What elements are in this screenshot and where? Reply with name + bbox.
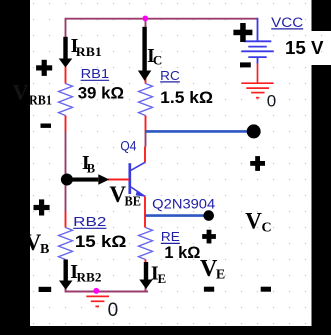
annotation minus (VB) [39,287,52,292]
resistor RE zigzag [139,228,153,260]
value 15 kOhm [75,232,127,251]
svg-text:V: V [245,209,262,234]
annotation VC [245,209,271,236]
net marker dot bottom (magenta) [93,288,99,294]
battery V1 plates [241,41,273,63]
label RC (refdes) [160,68,180,83]
svg-text:15 V: 15 V [285,37,324,58]
svg-text:RB1: RB1 [81,66,110,81]
transistor Q4 body [130,162,146,197]
svg-text:C: C [153,53,162,68]
svg-text:E: E [216,267,225,282]
value 39 kOhm [78,83,124,102]
net marker dot top (magenta) [142,16,148,22]
transistor Q4 collector pin [144,147,146,163]
svg-text:RB1: RB1 [76,44,102,59]
resistor RE pin bottom [145,260,147,277]
wire RE to bottom rail [145,276,147,292]
transistor Q4 base pin [108,179,129,181]
wire emitter output (blue) [145,214,205,217]
wire mid rail top stub [145,19,147,28]
annotation VB [25,230,50,257]
value 1.5 kOhm [160,88,213,107]
svg-text:RC: RC [160,68,180,83]
svg-text:V: V [13,79,29,104]
wire bottom rail [65,291,148,293]
current arrow IRB2 [59,260,73,290]
resistor RC pin top [145,77,147,84]
svg-text:RB2: RB2 [77,270,102,285]
annotation plus (VRB1) [36,60,52,76]
resistor RB2 zigzag [59,228,73,260]
svg-text:0: 0 [267,92,276,111]
label RE (refdes) [161,229,180,244]
svg-text:15 kΩ: 15 kΩ [75,232,127,251]
label IC [147,45,162,68]
current arrow IE [139,262,153,289]
label VCC (net) [271,15,303,30]
junction dot node B (black) [61,174,73,186]
resistor RB1 pin top [65,67,67,84]
resistor RB1 pin bottom [65,116,67,132]
svg-text:39 kΩ: 39 kΩ [78,83,124,102]
wire left rail upper [65,18,67,38]
ground 0 (bottom) [86,296,109,306]
annotation minus (VRB1) [41,124,52,128]
wire top rail [66,18,258,20]
svg-text:0: 0 [108,300,119,321]
current arrow IRB1 [59,37,73,68]
letterbox bar right upper [312,0,331,31]
svg-text:E: E [158,271,167,286]
annotation plus (VE) [202,230,216,244]
wire VCC drop (blue) [257,18,259,42]
svg-text:1 kΩ: 1 kΩ [164,243,200,262]
svg-text:RE: RE [161,229,180,244]
letterbox bar bottom [0,326,331,335]
svg-text:Q4: Q4 [120,139,136,154]
wire collector gap [145,132,147,147]
wire collector output (blue) [146,130,250,133]
svg-text:C: C [262,221,272,236]
label Q2N3904 (model) [152,196,216,211]
battery ground pin [257,64,259,84]
annotation minus (battery) [240,62,251,67]
resistor RC pin bottom [145,116,147,132]
label IB [82,152,95,176]
annotation VRB1 (V ghost on bar) [13,79,53,108]
node 0 label (bottom ground) [108,300,119,321]
ground 0 (battery) [242,83,274,98]
svg-text:RB1: RB1 [29,94,52,109]
current arrow IC [138,27,151,81]
annotation 15 V (on notch) [285,37,324,58]
resistor RB1 zigzag [59,84,73,116]
value 1 kOhm [164,243,200,262]
current arrow IB [67,174,109,185]
annotation VE [200,256,225,282]
resistor RB2 pin top [65,212,67,228]
label RB2 (refdes) [73,214,106,229]
svg-text:BE: BE [125,195,141,210]
wire left rail mid [65,132,67,177]
svg-text:B: B [87,161,95,175]
annotation VBE [109,182,140,210]
letterbox bar left [0,0,30,335]
annotation plus (VB) [34,199,50,215]
junction dot node E output (black) [203,210,214,221]
transistor Q4 emitter pin [144,196,146,227]
svg-text:RB2: RB2 [73,214,106,229]
svg-text:B: B [40,242,49,257]
svg-text:Q2N3904: Q2N3904 [152,196,216,211]
label IE [151,263,166,287]
label Q4 (refdes) [120,139,136,154]
annotation plus (VC) [250,156,265,171]
label IRB2 [70,261,101,285]
svg-text:1.5 kΩ: 1.5 kΩ [160,88,213,107]
label IRB1 [71,35,102,59]
annotation minus (VE) [204,287,214,292]
resistor RB2 pin bottom [65,260,67,277]
wire left rail bottom [65,276,67,292]
annotation minus (VC) [261,287,271,292]
wire left rail below node [65,183,67,212]
svg-text:VCC: VCC [271,15,303,30]
annotation plus (battery) [233,23,252,42]
label RB1 (refdes) [81,66,110,81]
resistor RC zigzag [139,84,153,116]
node 0 label (battery ground) [267,92,276,111]
letterbox bar right lower [312,65,331,326]
junction dot node C output (black) [247,124,261,138]
